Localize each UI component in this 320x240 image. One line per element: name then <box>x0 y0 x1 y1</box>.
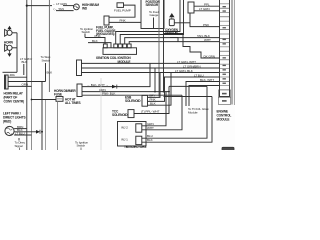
svg-text:BLK: BLK <box>47 71 54 75</box>
svg-text:CONV CENTR): CONV CENTR) <box>4 100 25 104</box>
svg-text:Module: Module <box>188 110 198 114</box>
wire: to-module drop 2 <box>189 86 220 107</box>
svg-text:MODULE: MODULE <box>118 60 131 64</box>
wire: injector WHT loop <box>142 95 182 130</box>
connector: fuel pump harness <box>104 16 109 25</box>
wire: LT GRN pickup wire <box>194 10 220 12</box>
wire: horn 2 to bus <box>12 47 17 49</box>
svg-text:BLK- WHT: BLK- WHT <box>200 78 214 82</box>
ESB solenoid <box>142 95 148 106</box>
wire: fuse drop to bottom <box>57 101 59 150</box>
svg-text:FUSE: FUSE <box>54 92 62 96</box>
wire: relay ORN wire <box>8 85 31 87</box>
svg-text:TBI INJECTORS: TBI INJECTORS <box>124 145 146 149</box>
wire: LT BLU park lamp wire <box>14 134 31 136</box>
node: junction at x169 <box>168 91 170 93</box>
svg-text:INJ 1: INJ 1 <box>121 137 128 141</box>
wire: vertical drop x42 to bottom <box>41 82 43 151</box>
svg-text:ALL TIMES: ALL TIMES <box>65 101 80 105</box>
svg-text:(W/GAUGES): (W/GAUGES) <box>96 32 114 36</box>
wire: coil wire A up and right <box>116 0 180 44</box>
svg-text:(RED): (RED) <box>3 120 11 124</box>
wire: riser x155 <box>154 68 156 92</box>
svg-text:Signal: Signal <box>15 144 23 148</box>
svg-text:SOLENOID: SOLENOID <box>112 113 128 117</box>
wire: LT GRN/BRN long wire <box>82 67 220 69</box>
connector: inline arrow on BLK-WHT <box>112 85 117 89</box>
terminal on coil bar left <box>103 44 107 48</box>
wire: sender stub in tank box <box>153 18 155 29</box>
wire: direction signal stub to bottom <box>19 148 21 151</box>
ECM pin strip outer rails <box>231 0 233 105</box>
ground for horn 2 <box>9 50 11 53</box>
wire: injector GRN loop <box>142 92 166 126</box>
svg-text:← LT GRN: ← LT GRN <box>53 2 67 6</box>
svg-text:PPL: PPL <box>204 3 210 7</box>
box: fuel tank position sensor <box>141 0 164 29</box>
svg-text:(← TAN: (← TAN <box>54 7 64 11</box>
svg-text:(T) PPL- WHT: (T) PPL- WHT <box>141 110 160 114</box>
connector: inline on BLK wire <box>36 130 40 134</box>
svg-text:FUEL PUMP: FUEL PUMP <box>114 9 131 13</box>
wire: stub to direction signal <box>18 138 20 141</box>
node: junction x163.5 on y91.6 <box>163 91 165 93</box>
wire: BLK-WHT pin wire top right <box>212 81 220 83</box>
injector 2 <box>136 124 142 132</box>
wire: to-ignition stub <box>84 34 86 38</box>
wire: ESB BLK wire up <box>148 73 172 106</box>
svg-text:Switch: Switch <box>77 144 86 148</box>
TCC solenoid <box>128 110 134 118</box>
dark module box bottom right <box>222 147 234 151</box>
wire: TCC PPL-WHT wire loop <box>134 86 169 113</box>
terminal t4 <box>127 44 131 48</box>
svg-text:WHT: WHT <box>204 38 211 42</box>
wire: vertical x45.5 lower <box>45 100 47 150</box>
svg-text:IGNITION COIL: IGNITION COIL <box>96 56 117 60</box>
ECM lower two pin cells <box>219 90 231 97</box>
ECM pin strip body <box>220 0 230 97</box>
wire: vertical at x49.5 (headlight circuit) <box>48 0 50 92</box>
wire: loop y96.5 across to x212 <box>164 96 213 98</box>
wire: horn vertical drop x17 <box>16 33 18 73</box>
wire: horn feed going off-page left <box>3 71 18 73</box>
wire: PNK-BLK wire <box>82 94 182 96</box>
wire: inner step corner <box>170 38 178 43</box>
wire: BLK-WHT wire with inline connector <box>82 63 150 86</box>
horn relay connector <box>5 75 9 89</box>
ignition coil / module base bar <box>103 48 137 55</box>
terminal t2 <box>118 44 122 48</box>
svg-text:PNK: PNK <box>120 19 127 23</box>
wire: fuel sender wire to tank box <box>109 21 141 23</box>
wire: left vertical bus B <box>31 0 33 150</box>
svg-text:LT GRN/BRN: LT GRN/BRN <box>183 64 200 68</box>
wire: faint scan fold line <box>100 78 102 150</box>
distributor pickup connector <box>188 2 194 13</box>
horn 1 <box>7 30 12 35</box>
svg-text:SENSOR: SENSOR <box>146 3 159 7</box>
fuel pump prime box <box>117 3 124 8</box>
svg-text:PNK- BLK: PNK- BLK <box>102 91 116 95</box>
wire: ESB GRY wire up <box>148 73 161 98</box>
wire: loop top segment to BLU riser <box>169 85 207 87</box>
wire: PNK wire via x190 <box>190 13 220 27</box>
lamp HIGH BEAM IND <box>74 4 80 10</box>
wire: stub under LT GRN/BLK label <box>23 64 25 75</box>
connector: ignition module harness (3-wire) <box>77 60 82 76</box>
svg-text:INJ 2: INJ 2 <box>121 125 128 129</box>
wire: LT BLU wire <box>164 76 220 78</box>
wire: relay to bus A <box>8 76 27 78</box>
lamp LEFT PARK dual filament <box>5 126 14 135</box>
ECM pin numbers (tiny marks) <box>222 6 227 102</box>
injector 1 <box>136 136 142 144</box>
wire: coil wire B up and right <box>120 0 183 44</box>
svg-text:MODULE: MODULE <box>217 117 230 121</box>
node: junction at x155 <box>154 91 156 93</box>
wire: LT GRN wire to high-beam indicator <box>27 5 52 7</box>
wire: coil wire C TAN-BLK to ECM <box>125 38 220 44</box>
connector: lower harness (3-wire) <box>77 84 82 97</box>
box: TBI injectors <box>118 122 147 147</box>
terminal t3 <box>123 44 127 48</box>
svg-text:Gauge: Gauge <box>150 13 159 17</box>
svg-text:Switch: Switch <box>42 58 51 62</box>
wire: ESB PNK wire up <box>148 77 165 101</box>
svg-text:← BLK- WHT →: ← BLK- WHT → <box>87 83 108 87</box>
wire: BRN park lamp wire <box>14 128 27 130</box>
wire: TAN wire into lamp <box>56 10 74 12</box>
horn 2 <box>7 45 12 50</box>
wire: BLK ignition feed <box>88 43 111 48</box>
wire: vertical x159 from top <box>158 0 160 97</box>
svg-text:LT GRN- WHT: LT GRN- WHT <box>177 60 196 64</box>
svg-text:48A: 48A <box>10 73 16 77</box>
wire: injector BLK loop <box>142 97 212 143</box>
fuse HORN DIMMER <box>56 97 63 102</box>
wire: PPL pickup wire <box>194 5 220 7</box>
wire: left vertical bus A <box>26 0 28 150</box>
wire: horn 1 to bus <box>12 32 17 34</box>
svg-text:DK GRN: DK GRN <box>204 54 215 58</box>
wire: GRN wire to loop junction <box>82 91 169 93</box>
wire: PNK ignition feed <box>85 38 105 45</box>
wire: BLK park lamp wire w/ connector <box>14 131 36 133</box>
terminal t1 <box>114 44 118 48</box>
svg-text:LT BLU: LT BLU <box>194 73 204 77</box>
svg-text:WHT: WHT <box>147 126 154 130</box>
svg-text:LT GRN: LT GRN <box>199 7 209 11</box>
wire: oxygen sensor lead <box>174 22 190 24</box>
wire: coil wire D WHT to ECM <box>129 42 219 44</box>
node: junction on bus A top <box>26 5 28 7</box>
wire: vertical x163.5 from top <box>163 0 165 92</box>
svg-text:Switch: Switch <box>82 30 91 34</box>
wire: bottom ignition stub <box>80 148 82 151</box>
ECM pin dividers <box>219 4 231 105</box>
wire: horn fuse feed from bus B <box>32 99 57 101</box>
svg-text:LT BLU: LT BLU <box>15 131 25 135</box>
wire: injector BLU loop <box>142 86 207 138</box>
wire: stepped wire to GRN pin <box>164 34 220 59</box>
wire: relay feed across to x42 drop <box>8 81 45 83</box>
wire: LT GRN-WHT long wire <box>82 62 220 64</box>
svg-text:IND: IND <box>82 7 88 11</box>
wire: prime box loop <box>109 5 135 17</box>
wire: LT GRN-BLK long wire <box>82 72 220 74</box>
ground for horn 1 <box>9 28 11 31</box>
svg-text:ORN: ORN <box>22 82 29 86</box>
svg-text:PNK: PNK <box>203 23 210 27</box>
oxygen sensor symbol <box>169 19 174 26</box>
svg-text:SOLENOID: SOLENOID <box>125 99 141 103</box>
wire: to-module drop 1 <box>186 82 220 107</box>
svg-text:LT GRN- BLK: LT GRN- BLK <box>175 69 194 73</box>
svg-text:HORN: HORN <box>4 40 14 44</box>
svg-text:SENSOR: SENSOR <box>165 31 178 35</box>
wire: stub under To Stop Switch label <box>45 63 47 82</box>
